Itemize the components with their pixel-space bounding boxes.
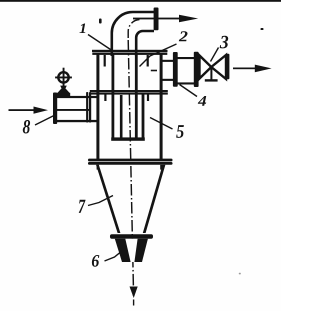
bolt studs below bottom flange — [97, 165, 163, 170]
weld tick inside vessel — [151, 70, 157, 72]
bottom discharge arrow — [130, 287, 138, 306]
leader line 3 — [211, 48, 219, 62]
scan speck lower right — [239, 273, 241, 275]
right outlet arrow — [233, 65, 272, 73]
valve 8 bonnet — [57, 86, 70, 98]
valve 8 handwheel — [58, 72, 68, 82]
vessel bottom flange — [88, 159, 173, 165]
vessel top cover flange 1 — [92, 50, 168, 55]
inlet valve 8 body — [53, 96, 97, 122]
leader line 7 — [88, 196, 113, 206]
label 6 — [92, 255, 99, 267]
label 7 — [79, 200, 86, 213]
leader line 1 — [88, 35, 112, 51]
label 8 — [23, 120, 30, 134]
centerline (dash-dot vertical axis) — [128, 20, 139, 297]
leader line 6 — [105, 251, 123, 262]
bolt studs below top flange — [104, 55, 149, 67]
outlet flange pair 4 (bar 1) — [173, 52, 178, 87]
discharge flange bar — [110, 234, 153, 238]
inner tube left wall — [112, 55, 115, 140]
cone 7 right edge — [143, 165, 166, 233]
top outlet arrow — [133, 15, 198, 23]
inner sleeve 5 right wall — [142, 95, 145, 140]
label 2 — [179, 31, 188, 41]
inlet arrow — [9, 107, 49, 114]
leader line 8 — [35, 116, 54, 126]
outlet spool pipe — [178, 57, 195, 85]
discharge spout 6 — [115, 239, 148, 262]
vessel mid flange — [90, 90, 168, 95]
inner tube bottom closure — [111, 137, 145, 140]
cone 7 left edge — [96, 165, 120, 233]
label 5 — [176, 125, 184, 138]
scan speck near label 1 — [99, 19, 102, 24]
vessel left wall — [96, 55, 99, 160]
top border artifact line — [0, 0, 281, 2]
inlet right flange pair — [86, 92, 91, 123]
elbow outlet pipe — [112, 12, 154, 56]
scan speck upper right — [261, 28, 264, 30]
leader line 4 — [180, 85, 198, 97]
valve 3 bowtie — [200, 55, 227, 79]
bolt studs below mid flange — [104, 95, 149, 102]
label 4 — [198, 96, 206, 106]
outlet flange bar 2 — [194, 52, 199, 87]
inlet left flange bar — [53, 93, 57, 125]
valve 3 right flange bar — [226, 54, 229, 80]
inner tube right wall — [135, 55, 138, 140]
leader line 5 — [150, 118, 173, 130]
leader line 2 — [140, 44, 177, 67]
elbow flange — [154, 8, 159, 31]
label 1 — [80, 24, 86, 34]
inner sleeve 5 left wall — [120, 95, 123, 140]
outlet stub pipe to valve 3 — [161, 60, 174, 81]
valve 3 stem and foot — [205, 67, 218, 82]
label 3 — [220, 36, 229, 49]
vessel right wall — [160, 55, 163, 160]
